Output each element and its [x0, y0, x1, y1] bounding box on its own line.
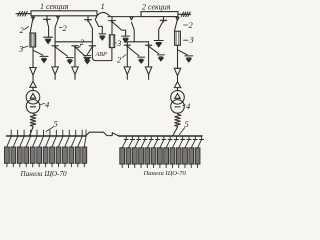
svg-text:2: 2	[117, 55, 122, 65]
switch 1 (bus tie) blade	[97, 12, 110, 16]
busbar section 2	[141, 12, 178, 17]
panel feeder R8: switch and fuse to panel	[164, 136, 172, 168]
feeder switch with earthing (x75)	[72, 46, 86, 57]
svg-text:Панели ЩО-70: Панели ЩО-70	[20, 170, 68, 178]
panel feeder R4: switch and fuse to panel	[139, 136, 147, 168]
panel feeder L10: switch and fuse to panel	[63, 130, 70, 167]
panel feeder L2: switch and fuse to panel	[11, 130, 18, 167]
switch 2 (right incoming)	[176, 18, 179, 21]
panel feeder R2: switch and fuse to panel	[126, 136, 134, 168]
AVR link line	[96, 48, 112, 61]
panel feeder L1: switch and fuse to panel	[5, 130, 12, 167]
panel feeder R5: switch and fuse to panel	[145, 136, 153, 168]
panel feeder L12: switch and fuse to panel	[75, 130, 82, 167]
svg-text:4: 4	[45, 100, 50, 110]
panel feeder R1: switch and fuse to panel	[120, 136, 128, 168]
svg-text:4: 4	[186, 101, 191, 111]
right feeder header line	[124, 41, 148, 43]
panel feeder L11: switch and fuse to panel	[69, 130, 76, 167]
panel feeder L13: switch and fuse to panel	[82, 130, 87, 167]
panel feeder L9: switch and fuse to panel	[56, 130, 63, 167]
LV busbar 5 (right)	[119, 135, 202, 137]
switch 2 (left incoming)	[32, 17, 35, 20]
fuse 3 (left incoming)	[30, 33, 36, 47]
connector arrow down (left column)	[30, 68, 36, 76]
svg-text:5: 5	[54, 119, 58, 129]
switch (x88) to AVR riser	[85, 16, 93, 46]
wire below right fuse	[177, 45, 179, 91]
busbar section 1	[31, 11, 97, 16]
connector arrow up (left column)	[30, 81, 36, 87]
svg-text:3: 3	[189, 35, 194, 45]
svg-text:АВР: АВР	[95, 51, 108, 58]
LV busbar 5 (left)	[7, 135, 87, 137]
panel feeder L5: switch and fuse to panel	[30, 130, 37, 167]
feeder arrow (x75)	[72, 67, 78, 75]
fuse 3 (center)	[111, 21, 113, 35]
feeder arrow (x55)	[52, 67, 58, 75]
switch (x58) feeding left group	[57, 16, 60, 19]
panel feeder R11: switch and fuse to panel	[183, 136, 191, 168]
switch to earth (x47)	[44, 16, 51, 37]
svg-text:1 секция: 1 секция	[40, 2, 69, 11]
ground branch (right column)	[178, 50, 188, 55]
panel feeder R3: switch and fuse to panel	[132, 136, 140, 168]
feeder arrow (x127)	[124, 67, 130, 75]
switch to LV bus (left)	[30, 127, 33, 136]
wire below fuse to transformer	[32, 47, 34, 91]
feeder switch with earthing (x127)	[124, 42, 139, 56]
svg-text:3: 3	[18, 44, 23, 54]
transformer 4 (left)	[26, 90, 40, 104]
feeder switch with earthing (x92)	[87, 46, 95, 55]
panel feeders right group	[120, 136, 204, 168]
svg-text:2 секция: 2 секция	[142, 2, 171, 11]
left feeder header line	[55, 41, 92, 43]
panel feeder R7: switch and fuse to panel	[157, 136, 165, 168]
grounding switch at section 1 right end	[95, 16, 102, 34]
panel feeder L6: switch and fuse to panel	[37, 130, 44, 167]
feeder switch with earthing (x55)	[52, 42, 68, 56]
ground branch (left column)	[33, 50, 43, 55]
fuse 3 (right incoming)	[175, 31, 181, 45]
flexible link (right)	[175, 113, 181, 127]
earthing switch under section 2 (x163.5)	[159, 17, 167, 41]
flexible link (left)	[30, 113, 36, 127]
panel feeder L3: switch and fuse to panel	[17, 130, 24, 167]
hinge dots	[54, 46, 56, 48]
svg-text:2: 2	[189, 20, 194, 30]
wire: tie line between sections	[108, 16, 141, 18]
center drop with earthing switch and fuse 3	[109, 17, 126, 36]
feeder arrow (x148.6)	[145, 67, 151, 75]
svg-text:2: 2	[63, 23, 68, 33]
panel feeder R9: switch and fuse to panel	[170, 136, 178, 168]
panel feeder R13: switch and fuse to panel	[195, 136, 203, 168]
panel feeder R6: switch and fuse to panel	[151, 136, 159, 168]
svg-text:1: 1	[101, 1, 105, 11]
feeder switch with earthing (x148.6)	[145, 42, 158, 54]
panel feeders left group	[5, 130, 87, 167]
panel feeder L8: switch and fuse to panel	[50, 130, 57, 167]
connector arrow up (right column)	[174, 82, 180, 88]
switch to LV bus (right)	[173, 127, 178, 136]
switch (x131.5) feeding right group	[130, 17, 133, 20]
panel feeder R10: switch and fuse to panel	[176, 136, 184, 168]
svg-text:Панели ЩО-70: Панели ЩО-70	[143, 170, 187, 177]
panel feeder R12: switch and fuse to panel	[189, 136, 197, 168]
incoming line left with break symbol	[16, 13, 31, 15]
transformer 4 (right)	[171, 91, 185, 105]
connector arrow down (right column)	[174, 68, 180, 76]
LV bus bridge with switch	[86, 132, 112, 135]
panel feeder L7: switch and fuse to panel	[43, 130, 50, 167]
svg-text:2: 2	[20, 25, 25, 35]
panel feeder L4: switch and fuse to panel	[24, 130, 31, 167]
incoming line right with break symbol	[178, 13, 191, 15]
